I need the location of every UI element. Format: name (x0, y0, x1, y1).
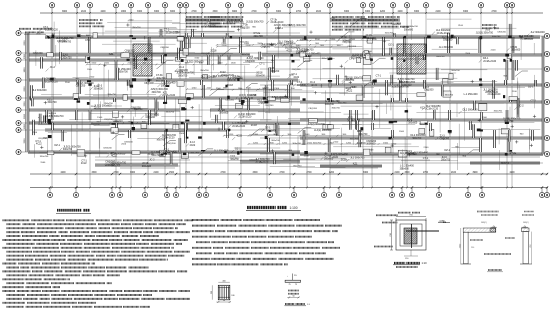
svg-text:4C22: 4C22 (306, 55, 312, 58)
svg-text:2100: 2100 (394, 172, 400, 174)
column joint 75 (183, 153, 187, 155)
grid bubble bottom 9 (205, 188, 207, 193)
svg-text:75: 75 (288, 284, 290, 286)
svg-text:2100: 2100 (127, 63, 133, 65)
grid bubble bottom 5 (144, 188, 146, 193)
thin line v 74 (533, 75, 535, 108)
svg-text:2100: 2100 (246, 87, 252, 89)
wall vertical 66 (386, 80, 388, 95)
thin line v 49 (162, 47, 164, 86)
bottom axis tick 22 (480, 187, 482, 189)
svg-text:1500: 1500 (277, 43, 283, 45)
wall stub 40 (162, 55, 164, 63)
column joint 80 (131, 99, 134, 102)
tick 9 (324, 152, 327, 154)
wall horizontal 7 (300, 84, 543, 86)
thin line v 59 (379, 89, 381, 128)
vertical grid line 13 (266, 13, 268, 188)
thin line h 88 (401, 160, 458, 162)
column joint 61 (87, 80, 91, 82)
svg-text:2100: 2100 (391, 144, 397, 146)
svg-text:1500: 1500 (419, 124, 425, 126)
bottom dim tick 5 (166, 173, 168, 175)
svg-text:350x750: 350x750 (132, 27, 141, 29)
svg-text:4200: 4200 (100, 11, 106, 13)
wall stub 17 (423, 80, 425, 89)
label leader 98 (275, 43, 278, 46)
bottom dim tick 9 (239, 173, 241, 175)
label leader 104 (46, 69, 49, 72)
thin line v 67 (458, 124, 460, 156)
bottom dim tick 10 (269, 173, 271, 175)
notes left line 22 (3, 302, 26, 304)
label leader 16 (235, 97, 238, 100)
thin line v 44 (99, 132, 101, 157)
thin line h 57 (342, 124, 415, 126)
svg-text:2100: 2100 (465, 53, 471, 55)
grid bubble bottom 21 (541, 188, 543, 193)
thin line h 15 (278, 124, 362, 126)
svg-text:350x750: 350x750 (200, 70, 209, 72)
wall vertical 81 (359, 130, 361, 147)
wall vertical 44 (393, 33, 395, 37)
svg-text:3300: 3300 (363, 172, 369, 174)
top dim tick 3 (115, 12, 117, 14)
svg-text:CT-1: CT-1 (423, 157, 429, 160)
svg-text:2100: 2100 (65, 82, 71, 84)
column joint 19 (510, 59, 512, 62)
footing F17 (479, 104, 487, 111)
column joint 47 (479, 78, 482, 80)
svg-text:2600: 2600 (24, 86, 26, 92)
label leader 96 (58, 40, 61, 43)
tick 4 (40, 146, 43, 148)
footing F52 (203, 74, 208, 78)
notes left line 18 (3, 286, 24, 288)
svg-text:2100: 2100 (121, 144, 127, 146)
thin line v 70 (278, 125, 280, 144)
wall horizontal 10 (28, 109, 180, 111)
wall vertical 50 (448, 33, 450, 37)
svg-text:1500: 1500 (482, 117, 488, 119)
detail pile cap caption (394, 262, 405, 264)
wall vertical 25 (203, 85, 205, 98)
grid bubble top 18 (369, 3, 374, 8)
svg-text:2100: 2100 (315, 39, 321, 41)
svg-text:C8@200: C8@200 (144, 82, 154, 85)
footing F47 (111, 128, 118, 134)
thin line h 36 (38, 124, 118, 126)
column joint 57 (48, 119, 51, 122)
vertical grid line 17 (362, 13, 364, 188)
thin line h 63 (312, 87, 374, 89)
svg-text:2100: 2100 (246, 45, 252, 47)
svg-text:4C22: 4C22 (293, 76, 299, 79)
wall horizontal 18 (185, 19, 243, 21)
column joint 76 (329, 58, 333, 60)
diag leader 1 (112, 134, 119, 139)
svg-text:M5(C): M5(C) (481, 222, 487, 224)
thin line v 47 (324, 90, 326, 128)
thin line h 3 (113, 40, 160, 42)
thin line v 65 (533, 43, 535, 55)
svg-text:2100: 2100 (333, 141, 339, 143)
top dim tick 6 (164, 12, 166, 14)
svg-text:JC-2: JC-2 (518, 104, 524, 107)
grid bubble top 25 (509, 3, 514, 8)
column joint 9 (227, 96, 230, 99)
column joint 84 (240, 151, 242, 153)
wall stub 27 (160, 29, 162, 37)
thin line h 20 (94, 107, 148, 109)
label leader 57 (321, 157, 324, 160)
svg-text:1200: 1200 (128, 122, 134, 124)
wall horizontal 20 (95, 164, 178, 166)
wall horizontal 1 (45, 36, 300, 38)
thin line v 48 (213, 48, 215, 70)
thin line h 85 (258, 111, 324, 113)
thin line v 31 (140, 66, 142, 75)
svg-text:2100: 2100 (114, 122, 120, 124)
thin line v 7 (184, 31, 186, 49)
thin line h 12 (283, 26, 306, 28)
svg-text:1:100: 1:100 (290, 206, 298, 210)
svg-text:3300: 3300 (252, 172, 258, 174)
bottom dim tick 12 (323, 173, 325, 175)
wall stub 1 (516, 60, 518, 71)
label leader 24 (158, 136, 161, 139)
wall horizontal 13 (28, 122, 300, 124)
left room stub 3 (31, 85, 33, 100)
svg-text:1200: 1200 (330, 39, 336, 41)
detail wall level triangle left (493, 226, 496, 228)
vertical grid line 11 (227, 13, 229, 188)
notes left line 11 (7, 259, 34, 261)
notes left line 9 (7, 251, 33, 253)
svg-text:2100: 2100 (207, 87, 213, 89)
label leader 92 (342, 81, 345, 84)
footing F30 (160, 150, 165, 156)
column joint 94 (292, 60, 295, 62)
bottom axis tick 5 (147, 187, 149, 189)
thin line v 50 (132, 117, 134, 132)
thin line v 27 (402, 149, 404, 170)
wall horizontal 6 (28, 79, 298, 81)
detail tee caption (285, 303, 294, 305)
svg-text:CT-1: CT-1 (531, 100, 537, 103)
wall stub 30 (470, 121, 472, 130)
top dim tick 8 (185, 12, 187, 14)
wall stub 23 (192, 29, 194, 37)
notes left line 17 (7, 282, 25, 284)
tick 16 (112, 131, 115, 133)
column joint 13 (166, 129, 168, 132)
vertical grid line 23 (480, 13, 482, 188)
svg-text:C8@200: C8@200 (497, 32, 506, 34)
outer wall reinforcement top (45, 37, 300, 39)
svg-text:4200: 4200 (329, 172, 335, 174)
wall vertical 16 (165, 130, 167, 138)
wall horizontal 5 (28, 59, 135, 61)
label leader 125 (229, 77, 232, 80)
column joint 4 (77, 34, 80, 37)
label leader 66 (231, 150, 234, 153)
thin line h 76 (373, 34, 437, 36)
grid bubble left B (16, 50, 21, 55)
bottom dim tick 18 (467, 173, 469, 175)
svg-text:2700: 2700 (220, 172, 226, 174)
thin line h 8 (161, 115, 202, 117)
svg-text:300x700: 300x700 (385, 32, 394, 34)
wall horizontal 2 (300, 36, 540, 38)
svg-text:1500: 1500 (91, 63, 97, 65)
grid bubble top 12 (238, 3, 243, 8)
footing F5 (166, 74, 171, 79)
svg-text:1500: 1500 (230, 156, 236, 158)
footing F34 (175, 57, 181, 61)
thin line v 34 (392, 135, 394, 145)
footing F21 (47, 151, 54, 155)
thin line v 21 (344, 67, 346, 96)
thin line v 52 (371, 111, 373, 126)
thin line h 19 (93, 94, 123, 96)
thin line h 29 (48, 132, 67, 134)
thin line h 21 (41, 93, 62, 95)
notes right line 3 (192, 230, 214, 232)
label leader 55 (526, 34, 529, 37)
thin line v 17 (410, 19, 412, 40)
tick 1 (121, 116, 124, 118)
thin line h 82 (266, 50, 307, 52)
svg-text:2100: 2100 (316, 11, 322, 13)
svg-text:C8@200: C8@200 (292, 69, 301, 71)
top dimension line (40, 12, 543, 14)
grid bubble top 21 (423, 3, 428, 8)
thin line v 63 (516, 78, 518, 90)
bottom dim tick 13 (338, 173, 340, 175)
label leader 62 (232, 137, 235, 140)
wall vertical 78 (272, 80, 274, 91)
svg-text:250: 250 (471, 247, 474, 249)
wall vertical 2 (51, 37, 53, 53)
svg-text:2100: 2100 (289, 75, 295, 77)
dim chain 6 (87, 63, 250, 65)
grid bubble bottom 18 (438, 188, 440, 193)
tick 13 (237, 29, 240, 31)
svg-text:300x700: 300x700 (358, 133, 368, 136)
label leader 44 (346, 159, 349, 162)
bottom band line 2 (310, 156, 540, 158)
thin line h 2 (321, 92, 406, 94)
tick 14 (375, 106, 378, 108)
svg-text:CT-1: CT-1 (259, 63, 265, 66)
thin line h 43 (154, 82, 171, 84)
label leader 106 (282, 44, 285, 47)
thin line v 75 (278, 26, 280, 42)
wall vertical 37 (307, 55, 309, 60)
svg-text:300x700: 300x700 (119, 71, 129, 74)
thin line v 57 (457, 143, 459, 170)
thin line h 51 (297, 167, 345, 169)
svg-text:2100: 2100 (129, 20, 135, 22)
wall stub 14 (188, 37, 190, 48)
svg-text:2100: 2100 (350, 39, 356, 41)
thin line v 25 (499, 150, 501, 170)
column joint 65 (292, 154, 295, 156)
thin line h 18 (422, 102, 504, 104)
thin line h 90 (146, 52, 233, 54)
thin line v 14 (193, 64, 195, 75)
footing F4 (121, 53, 130, 58)
column joint 62 (87, 57, 90, 60)
wall vertical 32 (239, 98, 241, 102)
column joint 70 (480, 129, 483, 131)
svg-text:2100: 2100 (485, 30, 491, 32)
thin line h 7 (168, 28, 196, 30)
svg-text:JL5(3) 300x700: JL5(3) 300x700 (476, 32, 494, 35)
wall vertical 54 (480, 138, 482, 152)
footing F26 (417, 93, 425, 97)
wall left edge (27, 33, 29, 152)
grid bubble bottom 4 (119, 188, 121, 193)
tick 24 (320, 85, 323, 87)
column joint 2 (393, 121, 397, 123)
top dim tick 7 (179, 12, 181, 14)
tick 5 (103, 64, 106, 66)
svg-text:300x700: 300x700 (409, 26, 418, 28)
svg-text:1800: 1800 (121, 11, 127, 13)
notes right line 4 (192, 236, 208, 238)
thin line v 4 (528, 129, 530, 150)
thin line h 28 (128, 20, 173, 22)
level mark -4.05 (438, 222, 450, 224)
diag leader 5 (351, 18, 361, 26)
label stack 6 (482, 24, 493, 26)
column joint 39 (132, 78, 136, 81)
thin line h 68 (72, 153, 109, 155)
wall vertical 13 (129, 130, 131, 138)
wall vertical 55 (506, 60, 508, 80)
wall vertical 3 (51, 110, 53, 120)
svg-text:2100: 2100 (435, 11, 441, 13)
wall horizontal 19 (330, 19, 400, 21)
svg-text:C8@200: C8@200 (308, 108, 317, 110)
svg-text:1200: 1200 (282, 142, 288, 144)
column joint 36 (480, 36, 483, 39)
wall stub 38 (508, 130, 510, 142)
svg-text:CT-3b: CT-3b (346, 78, 353, 81)
svg-text:C8@200: C8@200 (440, 137, 450, 140)
column joint 31 (405, 110, 407, 112)
bottom dim tick 14 (391, 173, 393, 175)
thin line v 11 (277, 116, 279, 135)
svg-text:2100: 2100 (32, 132, 38, 134)
wall vertical 79 (349, 110, 351, 130)
vertical grid line 21 (425, 13, 427, 188)
svg-text:2100: 2100 (307, 142, 313, 144)
footing F29 (177, 81, 184, 86)
wall vertical 61 (512, 37, 514, 53)
svg-text:350x750: 350x750 (166, 112, 175, 114)
wall vertical 48 (425, 37, 427, 53)
wall vertical 76 (399, 80, 401, 101)
column joint 73 (241, 102, 244, 105)
grid bubble right C (544, 66, 549, 71)
thin line h 40 (322, 67, 409, 69)
wall vertical 53 (479, 37, 481, 53)
thin line v 42 (198, 104, 200, 130)
svg-text:3900: 3900 (472, 172, 478, 174)
svg-text:DZ-1: DZ-1 (528, 85, 534, 88)
label leader 122 (514, 107, 517, 110)
svg-text:2100: 2100 (330, 18, 336, 20)
thin line h 45 (274, 46, 348, 48)
label leader 142 (506, 48, 509, 51)
detail rebar square (218, 285, 230, 300)
thin line h 5 (341, 105, 412, 107)
footing F56 (93, 33, 97, 38)
svg-text:3300: 3300 (344, 11, 350, 13)
svg-text:3300: 3300 (365, 11, 371, 13)
wall stub 12 (207, 55, 209, 65)
bottom dim tick 11 (293, 173, 295, 175)
thin line h 55 (374, 127, 391, 129)
column joint 10 (403, 60, 405, 62)
footing F16 (281, 98, 290, 102)
dim chain 3 (297, 40, 390, 42)
footing F7 (501, 129, 509, 134)
diag leader 10 (157, 60, 168, 69)
dim chain 2 (217, 46, 362, 48)
thin line h 39 (179, 71, 259, 73)
thin line h 84 (339, 93, 417, 95)
svg-text:2%: 2% (294, 275, 297, 277)
column joint 29 (425, 123, 428, 125)
svg-text:1500: 1500 (36, 33, 42, 35)
thin line v 24 (58, 30, 60, 64)
svg-text:2700: 2700 (306, 172, 312, 174)
tick 12 (245, 121, 248, 123)
svg-text:CT-1: CT-1 (376, 75, 382, 78)
svg-text:3300: 3300 (154, 11, 160, 13)
thin line h 11 (432, 48, 478, 50)
tick 23 (271, 59, 274, 61)
thin line h 92 (90, 113, 157, 115)
svg-text:350x750: 350x750 (524, 39, 533, 41)
tick 40 (520, 36, 523, 38)
vertical grid line 15 (306, 13, 308, 188)
grid bubble right H (544, 151, 549, 156)
svg-text:C8@200: C8@200 (245, 60, 255, 63)
svg-text:2100: 2100 (91, 106, 97, 108)
svg-text:1500: 1500 (185, 172, 191, 174)
svg-text:300x700: 300x700 (152, 91, 162, 94)
wall vertical 33 (268, 138, 270, 152)
wall vertical 30 (227, 130, 229, 138)
grid bubble right F (544, 117, 549, 122)
wall horizontal 3 (28, 54, 250, 56)
footing F18 (180, 51, 186, 58)
wall vertical 14 (130, 80, 132, 85)
column joint 79 (74, 98, 78, 100)
tick 30 (370, 149, 373, 151)
bottom dim tick 3 (119, 173, 121, 175)
vertical grid line 19 (392, 13, 394, 188)
svg-text:4C22: 4C22 (36, 143, 42, 146)
grid bubble right G (544, 135, 549, 140)
tick 18 (271, 150, 274, 152)
notes left line 16 (3, 278, 24, 280)
